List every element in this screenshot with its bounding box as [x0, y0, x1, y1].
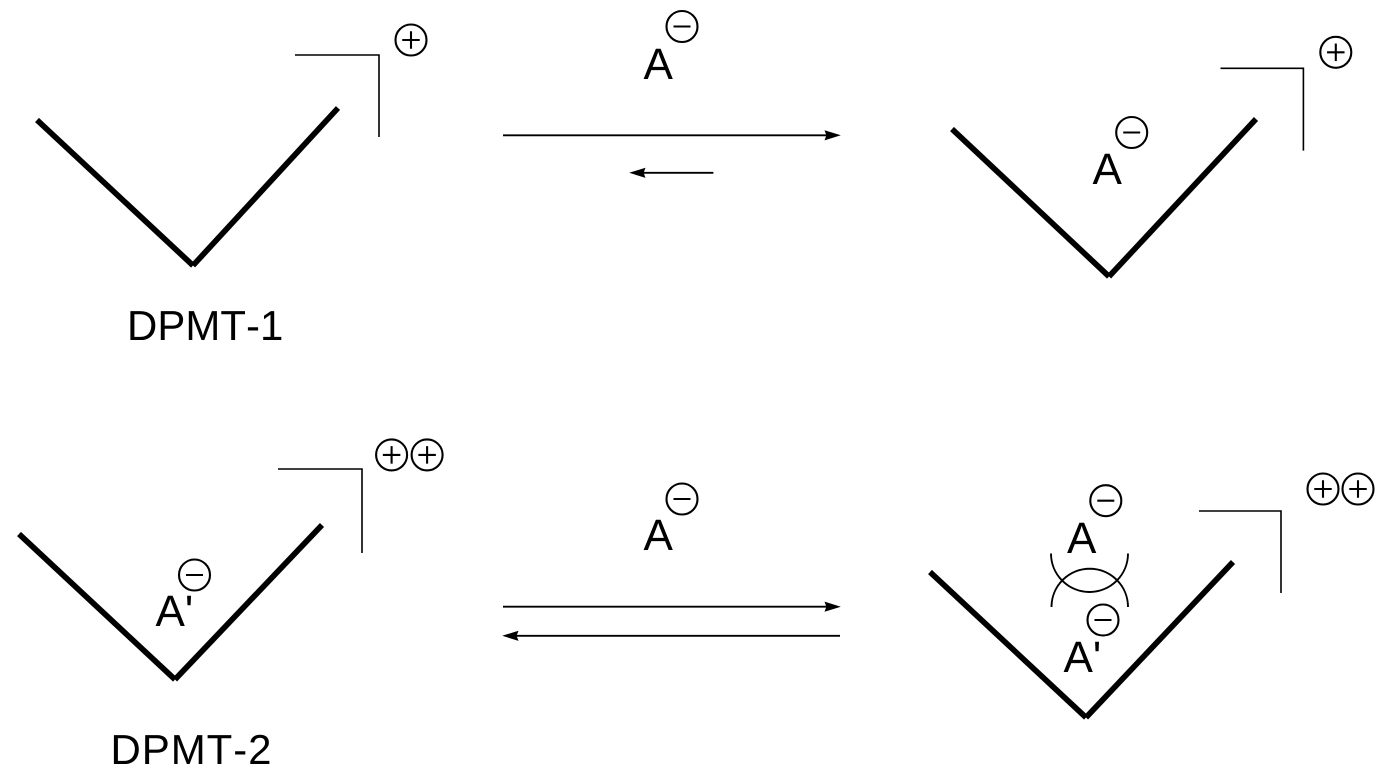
anion A top — [644, 49, 673, 79]
forward arrow bottom — [503, 602, 841, 612]
charge plus 2 bottom-right — [1343, 474, 1374, 505]
charge minus bound anion A' bottom-right — [1088, 605, 1119, 636]
tweezer DPMT-2 right arm — [175, 525, 322, 680]
anion A bottom — [644, 520, 673, 550]
tweezer complex top-right left arm — [952, 129, 1109, 277]
charge minus bound anion A bottom-right — [1090, 485, 1121, 516]
tweezer DPMT-1 left arm — [37, 120, 193, 266]
bound anion A' DPMT-2 — [156, 596, 191, 626]
label DPMT-1 — [130, 311, 281, 340]
charge minus bound anion top-right — [1116, 117, 1147, 148]
reverse arrow top — [629, 168, 713, 178]
charge plus top-right — [1320, 37, 1351, 68]
tweezer DPMT-2 left arm — [19, 534, 175, 680]
bracket bottom-right — [1199, 511, 1281, 593]
charge minus anion A bottom — [667, 484, 698, 515]
label DPMT-2 — [114, 735, 270, 764]
bound anion A top-right — [1093, 154, 1122, 184]
charge plus 2 DPMT-2 — [412, 439, 443, 470]
bracket DPMT-1 — [295, 55, 379, 137]
tweezer complex top-right right arm — [1109, 119, 1256, 277]
reverse arrow bottom — [502, 631, 840, 641]
charge plus 1 bottom-right — [1308, 474, 1339, 505]
tweezer DPMT-1 right arm — [193, 108, 338, 266]
forward arrow top — [503, 130, 841, 140]
tweezer complex bottom-right right arm — [1086, 562, 1233, 718]
bracket DPMT-2 — [278, 469, 362, 553]
charge plus 1 DPMT-2 — [376, 439, 407, 470]
bound anion A bottom-right — [1067, 523, 1096, 553]
stacking arc lower — [1052, 569, 1129, 607]
bound anion A' bottom-right — [1064, 642, 1099, 672]
stacking arc upper — [1051, 554, 1128, 593]
charge plus DPMT-1 — [396, 25, 427, 56]
bracket top-right — [1221, 68, 1304, 150]
charge minus anion A top — [667, 11, 698, 42]
tweezer complex bottom-right left arm — [930, 572, 1086, 718]
charge minus bound anion DPMT-2 — [179, 560, 210, 591]
